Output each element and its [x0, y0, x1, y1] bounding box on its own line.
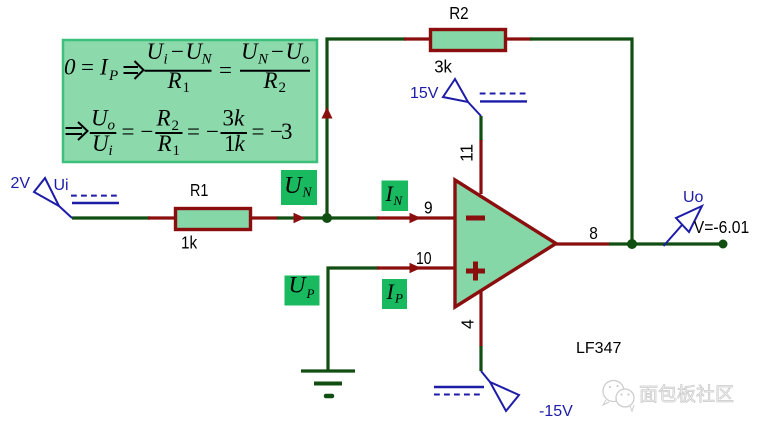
svg-text:V=-6.01: V=-6.01: [694, 217, 749, 237]
svg-text:9: 9: [424, 198, 433, 218]
svg-text:-15V: -15V: [539, 403, 573, 420]
svg-text:o: o: [302, 52, 310, 68]
svg-text:=: =: [187, 119, 200, 144]
svg-text:10: 10: [416, 248, 432, 268]
svg-text:2V: 2V: [11, 175, 31, 192]
svg-text:1: 1: [173, 143, 181, 159]
svg-text:4: 4: [458, 319, 478, 329]
svg-text:I: I: [99, 55, 109, 80]
svg-text:−: −: [271, 39, 284, 64]
svg-text:面包板社区: 面包板社区: [639, 384, 734, 406]
svg-text:1: 1: [183, 80, 191, 96]
svg-text:P: P: [306, 286, 315, 301]
svg-text:−: −: [171, 39, 184, 64]
svg-text:1k: 1k: [181, 233, 197, 253]
svg-text:U: U: [241, 39, 259, 64]
svg-text:=: =: [219, 58, 232, 83]
svg-text:k: k: [235, 131, 246, 156]
svg-text:P: P: [108, 68, 118, 84]
svg-text:R2: R2: [449, 3, 468, 23]
svg-text:=: =: [81, 55, 94, 80]
svg-text:3: 3: [281, 119, 293, 144]
svg-text:U: U: [92, 131, 110, 156]
svg-text:=: =: [122, 119, 135, 144]
svg-text:R: R: [156, 106, 171, 131]
svg-text:N: N: [302, 185, 313, 200]
svg-text:−: −: [206, 119, 219, 144]
svg-text:N: N: [393, 193, 404, 208]
svg-text:Uo: Uo: [683, 189, 704, 206]
svg-text:P: P: [394, 291, 403, 306]
svg-text:3k: 3k: [434, 56, 452, 76]
svg-text:U: U: [289, 273, 308, 299]
svg-text:0: 0: [64, 55, 76, 80]
svg-text:o: o: [108, 118, 116, 134]
svg-text:U: U: [91, 106, 109, 131]
svg-text:R: R: [157, 131, 172, 156]
svg-text:3: 3: [223, 106, 235, 131]
svg-text:=: =: [252, 119, 265, 144]
svg-text:U: U: [147, 39, 165, 64]
svg-text:15V: 15V: [410, 85, 439, 102]
svg-text:8: 8: [589, 223, 598, 243]
svg-text:−: −: [141, 119, 154, 144]
svg-text:R1: R1: [190, 180, 208, 200]
svg-text:k: k: [234, 106, 245, 131]
svg-text:LF347: LF347: [576, 340, 621, 357]
svg-text:2: 2: [279, 80, 287, 96]
svg-text:2: 2: [172, 118, 180, 134]
svg-text:11: 11: [457, 144, 477, 162]
svg-text:N: N: [257, 52, 269, 68]
svg-text:i: i: [109, 143, 113, 159]
svg-text:N: N: [201, 52, 213, 68]
svg-text:i: i: [164, 52, 168, 68]
svg-text:U: U: [284, 172, 304, 199]
svg-text:Ui: Ui: [54, 177, 69, 194]
